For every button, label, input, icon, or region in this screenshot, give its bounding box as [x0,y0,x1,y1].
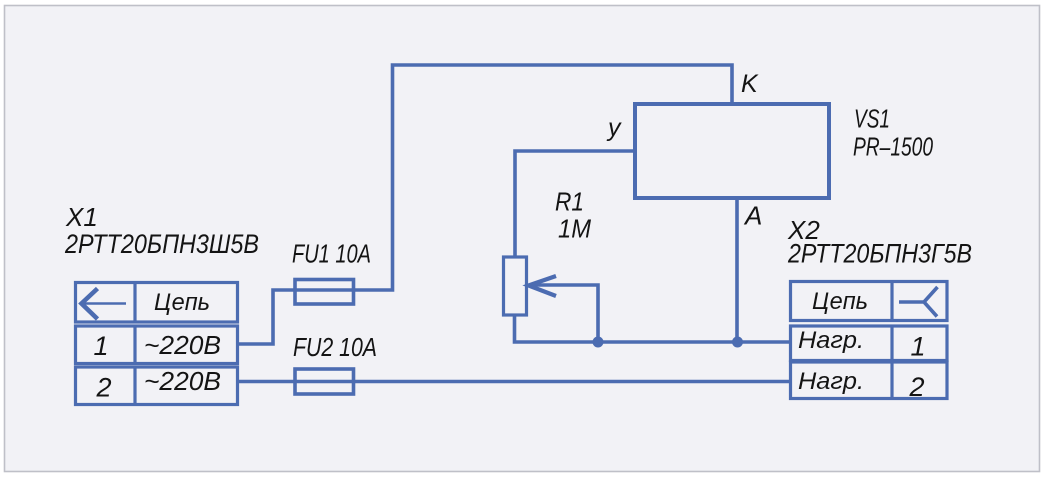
svg-text:A: A [743,201,762,231]
svg-text:Нагр.: Нагр. [798,368,864,395]
connector X1 header box [76,283,238,323]
svg-text:у: у [606,114,622,142]
svg-text:R1: R1 [555,189,584,217]
svg-text:Цепь: Цепь [154,289,210,316]
potentiometer R1 wiper arrow [529,276,557,296]
connector X2 header box [791,282,948,321]
svg-text:FU1 10A: FU1 10A [292,241,371,269]
svg-text:K: K [741,70,759,98]
junction wiper/bottom net [593,337,604,348]
svg-text:~220В: ~220В [144,330,221,360]
wire VS1 pin U to R1 top [515,151,635,257]
svg-text:VS1: VS1 [854,106,890,134]
svg-text:1М: 1М [558,216,592,244]
connector X1 cable arrow symbol [83,302,126,305]
wire R1 wiper [534,285,598,342]
wire X1:1 to FU1 to VS1 pin K [237,65,732,344]
svg-text:Цепь: Цепь [812,288,868,315]
svg-text:~220В: ~220В [144,366,221,396]
wire X1:2 to FU2 to X2:2 [237,380,789,384]
thyristor unit VS1 [635,104,829,198]
svg-text:FU2 10A: FU2 10A [293,334,377,362]
fuse FU1 [295,280,354,305]
svg-text:2РТТ20БПН3Г5В: 2РТТ20БПН3Г5В [787,239,972,269]
svg-text:PR–1500: PR–1500 [853,134,933,162]
wire R1 bottom to X2:1 [515,315,790,342]
svg-text:1: 1 [93,331,108,361]
svg-text:1: 1 [910,332,925,362]
junction VS1-A/bottom net [732,337,743,348]
svg-text:2РТТ20БПН3Ш5В: 2РТТ20БПН3Ш5В [64,229,259,259]
connector X2 row 2 box [791,362,948,399]
connector X1 row 1 box [76,326,238,364]
potentiometer R1 [504,257,527,315]
svg-text:X1: X1 [65,202,98,232]
wire VS1 pin A down [735,198,739,342]
fuse FU2 [295,369,354,394]
connector X1 row 2 box [76,367,238,405]
connector X2 socket symbol [899,287,938,317]
svg-text:2: 2 [908,372,924,402]
svg-text:Нагр.: Нагр. [798,327,864,354]
svg-text:2: 2 [95,373,111,403]
connector X2 row 1 box [791,326,948,361]
